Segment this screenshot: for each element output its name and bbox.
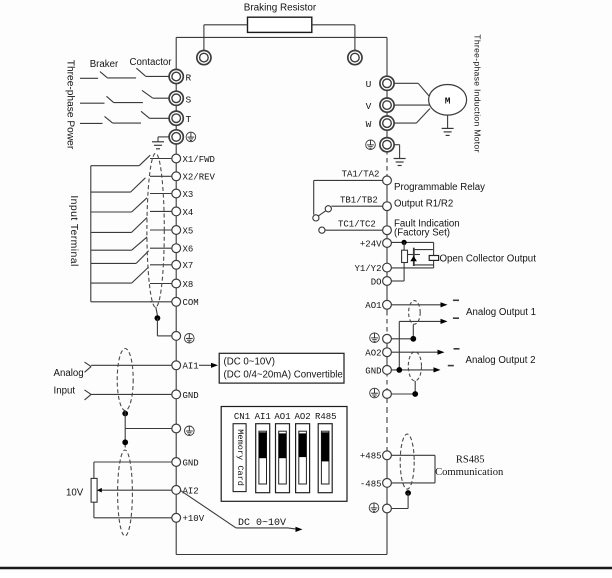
- wire braking resistor left lead: [204, 24, 248, 26]
- wire PE ao2 to shield: [391, 381, 415, 394]
- wire R phase source lead: [80, 77, 98, 79]
- DC note underline and arrow: [236, 527, 303, 532]
- svg-text:(DC 0~10V): (DC 0~10V): [224, 357, 275, 368]
- inverter enclosure right edge solid segment 5: [386, 451, 388, 555]
- switch blade X5: [132, 237, 148, 250]
- converter note text: [224, 357, 343, 381]
- wire input switch row 2: [91, 191, 131, 193]
- wire Y1/Y2: [391, 267, 433, 269]
- wire S contactor to terminal: [153, 97, 170, 99]
- wire input switch row 4: [91, 231, 132, 233]
- terminal PE ao2: [383, 390, 392, 399]
- converter note box: [219, 353, 344, 383]
- wire stub to X7: [150, 264, 172, 266]
- switch blade X1: [139, 155, 150, 166]
- terminal COM: [172, 297, 199, 308]
- open collector output connector: [429, 256, 438, 261]
- wire COM row: [91, 301, 152, 303]
- wire drain down and to PE terminal: [157, 318, 171, 336]
- terminal S: [169, 91, 191, 105]
- terminal X1/FWD: [172, 154, 215, 165]
- wire shield drain to node: [156, 307, 158, 316]
- label Input: [54, 386, 76, 397]
- terminal P (braking): [197, 51, 211, 65]
- terminal X2/REV: [172, 172, 216, 183]
- terminal PB (braking): [348, 51, 362, 65]
- svg-text:Input: Input: [54, 386, 76, 397]
- wire shield1 to shield2: [124, 411, 126, 448]
- terminal -485: [383, 479, 392, 488]
- relay contact NO: [325, 206, 331, 212]
- label Analog: [54, 368, 84, 379]
- inverter enclosure right edge dashed segment 3: [386, 372, 388, 391]
- wire left stem to terminal P: [203, 25, 205, 51]
- wire stub to X2/REV: [150, 175, 172, 177]
- terminal AI1: [172, 361, 199, 372]
- switch blade X3: [132, 198, 147, 212]
- terminal PE input: [169, 130, 183, 144]
- wire S phase source lead: [80, 102, 105, 104]
- wire R contactor to terminal: [145, 75, 169, 77]
- label +485: [360, 452, 382, 462]
- arrow AI1 to converter note: [199, 363, 218, 368]
- wire AI1 input: [91, 364, 172, 366]
- terminal PE output: [380, 138, 394, 152]
- ground symbol output PE: [394, 159, 406, 166]
- wire stub to X6: [150, 247, 172, 249]
- svg-text:M: M: [445, 95, 451, 106]
- wire stub to X1/FWD: [150, 158, 172, 160]
- svg-text:X3: X3: [183, 190, 194, 200]
- label Communication: [435, 467, 504, 478]
- svg-text:TA1/TA2: TA1/TA2: [342, 170, 380, 180]
- wire +485: [391, 454, 435, 456]
- svg-text:X4: X4: [183, 208, 194, 218]
- switch blade X6: [136, 251, 149, 264]
- wire S braker to contactor: [114, 102, 143, 104]
- wire PE 485 to shield: [391, 493, 408, 509]
- junction dot +24V: [402, 240, 407, 245]
- svg-text:R485: R485: [315, 412, 337, 422]
- inverter enclosure bottom edge: [176, 554, 387, 556]
- wire stub to X3: [150, 193, 172, 195]
- svg-text:TB1/TB2: TB1/TB2: [340, 195, 378, 205]
- wire input PE to ground: [158, 137, 169, 142]
- svg-text:X7: X7: [183, 261, 194, 271]
- svg-text:+10V: +10V: [183, 514, 205, 524]
- inverter enclosure right edge solid segment 2: [386, 177, 388, 311]
- wire stub to COM: [150, 301, 172, 303]
- transistor Q1 base drive line: [408, 254, 420, 256]
- label TB1/TB2: [340, 195, 378, 205]
- svg-text:Analog Output 2: Analog Output 2: [466, 355, 536, 366]
- PE symbol ao2: [370, 388, 380, 398]
- wire U to motor: [394, 83, 430, 96]
- wire T braker to contactor: [113, 122, 142, 124]
- wire input switch row 5: [91, 249, 132, 251]
- terminal +10V: [172, 513, 205, 524]
- svg-text:Output R1/R2: Output R1/R2: [394, 199, 453, 210]
- svg-text:Open Collector Output: Open Collector Output: [440, 254, 537, 265]
- braking resistor R: [248, 17, 312, 32]
- switch blade X2: [131, 178, 146, 192]
- page bottom border: [0, 567, 612, 570]
- label TC1/TC2: [338, 220, 376, 230]
- inverter enclosure left edge: [175, 37, 177, 554]
- motor M: [429, 85, 467, 116]
- terminal R: [169, 69, 191, 83]
- braker switch blade R: [100, 72, 107, 78]
- wire GND2 row: [94, 461, 172, 463]
- jumper switch 4: [318, 424, 332, 493]
- terminal V: [366, 98, 394, 112]
- junction dot shield2: [122, 439, 128, 445]
- wire +10V row: [94, 517, 172, 519]
- wire shields to PE terminal: [125, 428, 172, 430]
- label TA1/TA2: [342, 170, 380, 180]
- svg-text:(DC 0/4~20mA) Convertible: (DC 0/4~20mA) Convertible: [224, 370, 343, 381]
- shield ellipse input terminals: [147, 153, 164, 307]
- chevron arrow AI1: [85, 362, 92, 372]
- svg-text:U: U: [366, 79, 372, 90]
- wire TC1/TC2: [325, 229, 383, 231]
- svg-text:Analog: Analog: [54, 368, 84, 379]
- wire 485 bracket: [434, 455, 436, 483]
- terminal X7: [172, 260, 194, 271]
- svg-text:Three-phase Induction Motor: Three-phase Induction Motor: [473, 34, 483, 152]
- wire GND ao out: [391, 367, 440, 372]
- terminal GND2: [172, 458, 199, 469]
- svg-text:AI2: AI2: [183, 486, 199, 496]
- label DO: [371, 277, 382, 287]
- relay contact common: [313, 215, 319, 221]
- transistor Q1 base bar: [413, 248, 415, 266]
- svg-text:Analog Output 1: Analog Output 1: [466, 307, 536, 318]
- svg-text:Memory Card: Memory Card: [235, 429, 245, 486]
- wire PE ao1 to shield: [391, 325, 413, 339]
- ground symbol at input PE: [152, 142, 164, 149]
- svg-text:GND: GND: [183, 391, 199, 401]
- wire R braker to contactor: [107, 77, 136, 79]
- terminal +24V: [383, 239, 392, 248]
- terminal PE ao1: [383, 334, 392, 343]
- label Input Terminal: [68, 195, 80, 266]
- svg-text:Three-phase Power: Three-phase Power: [65, 60, 76, 150]
- wire pot top lead: [93, 462, 95, 478]
- label Programmable Relay: [394, 182, 485, 193]
- svg-text:+24V: +24V: [360, 239, 382, 249]
- svg-text:Communication: Communication: [435, 467, 504, 478]
- terminal X8: [172, 279, 194, 290]
- svg-text:(Factory Set): (Factory Set): [394, 228, 450, 239]
- jumper header labels: [234, 412, 337, 422]
- minus marks AO1: [453, 300, 459, 318]
- terminal TC1/TC2: [383, 226, 392, 235]
- wire AO1 out: [391, 302, 447, 307]
- braker switch blade T: [105, 116, 113, 123]
- PE symbol 485: [369, 503, 379, 513]
- terminal T: [169, 111, 191, 125]
- svg-text:Input Terminal: Input Terminal: [68, 195, 80, 266]
- wire T contactor to terminal: [150, 117, 170, 119]
- jumper switch 1: [256, 424, 270, 493]
- svg-text:10V: 10V: [66, 488, 84, 499]
- wire AI2 note diagonal: [181, 491, 236, 528]
- terminal AO1: [383, 300, 392, 309]
- svg-text:X8: X8: [183, 280, 194, 290]
- label +24V: [360, 239, 382, 249]
- junction dot shield drain: [155, 315, 161, 321]
- label -485: [360, 479, 382, 489]
- contactor switch blade S: [142, 90, 153, 98]
- minus marks AO2: [448, 349, 460, 366]
- svg-text:CN1: CN1: [234, 412, 250, 422]
- inverter enclosure right edge solid segment 3: [386, 336, 388, 372]
- terminal PE 485: [383, 504, 392, 513]
- PE symbol ao1: [370, 333, 380, 343]
- wire stub to X8: [150, 283, 172, 285]
- wire open collector vertical: [433, 242, 435, 268]
- svg-text:V: V: [366, 101, 372, 112]
- shield ellipse pot: [118, 450, 133, 536]
- terminal X5: [172, 226, 194, 237]
- junction dot GND ao: [396, 367, 402, 373]
- terminal +485: [383, 451, 392, 460]
- ground symbol motor: [442, 128, 454, 135]
- svg-text:Programmable Relay: Programmable Relay: [394, 182, 485, 193]
- svg-text:Contactor: Contactor: [130, 57, 173, 68]
- relay blade: [318, 211, 325, 216]
- svg-text:AI1: AI1: [183, 362, 199, 372]
- inverter enclosure right edge solid segment 1: [386, 37, 388, 150]
- wire motor to ground: [447, 115, 449, 128]
- wire AO2 out: [391, 350, 444, 355]
- svg-text:Y1/Y2: Y1/Y2: [354, 264, 381, 274]
- label GND ao: [365, 366, 381, 376]
- svg-text:W: W: [366, 119, 372, 130]
- braker switch blade S: [107, 96, 114, 102]
- wire stub to X4: [150, 210, 172, 212]
- terminal Y1/Y2: [383, 263, 392, 272]
- wire T phase source lead: [80, 122, 103, 124]
- PE symbol control left: [185, 333, 195, 343]
- wire output PE to ground: [394, 145, 400, 159]
- label Three-phase Power: [65, 60, 76, 150]
- svg-text:S: S: [186, 94, 192, 105]
- PE symbol analog: [185, 426, 195, 436]
- wire -485: [391, 482, 435, 484]
- terminal DO: [383, 277, 392, 286]
- label AO2: [365, 349, 381, 359]
- wire TA1/TA2: [314, 180, 383, 214]
- label RS485: [456, 455, 485, 466]
- label Open Collector Output: [440, 254, 537, 265]
- input switch bracket wire: [90, 166, 92, 302]
- wire +24V rail: [391, 241, 433, 243]
- label Contactor: [130, 57, 173, 68]
- terminal TB1/TB2: [383, 202, 392, 211]
- wire V to motor: [394, 104, 430, 106]
- wire W to motor: [394, 109, 430, 124]
- label Factory Set: [394, 228, 450, 239]
- terminal W: [366, 116, 394, 130]
- transistor Q1 arrow: [410, 256, 417, 261]
- shield ellipse AO2: [408, 352, 421, 381]
- potentiometer 10V body: [91, 478, 97, 502]
- inverter enclosure right edge dashed segment 1: [386, 150, 388, 177]
- contactor switch blade T: [141, 111, 150, 118]
- terminal GND ao: [383, 366, 392, 375]
- svg-text:Braking Resistor: Braking Resistor: [244, 3, 317, 14]
- terminal TA1/TA2: [383, 176, 392, 185]
- wire braking resistor right lead: [312, 24, 355, 26]
- svg-text:AO1: AO1: [365, 301, 381, 311]
- junction dot PE ao1: [410, 336, 416, 342]
- svg-text:GND: GND: [365, 366, 381, 376]
- wire input switch row 6: [91, 262, 136, 264]
- svg-text:TC1/TC2: TC1/TC2: [338, 220, 376, 230]
- switch blade X4: [132, 218, 147, 233]
- svg-text:Braker: Braker: [90, 59, 119, 70]
- terminal U: [366, 76, 394, 90]
- terminal X6: [172, 244, 194, 255]
- terminal PE (control): [172, 332, 181, 341]
- junction dot RS485 shield: [405, 490, 411, 496]
- terminal PE analog: [172, 424, 181, 433]
- relay contact NC: [319, 227, 325, 233]
- inverter enclosure top edge: [176, 36, 387, 38]
- chevron arrow GND input: [85, 390, 92, 400]
- wire DO: [391, 280, 404, 282]
- wire input switch row 1: [91, 165, 139, 167]
- svg-text:DC 0~10V: DC 0~10V: [238, 518, 286, 529]
- svg-text:COM: COM: [183, 298, 199, 308]
- label AO1: [365, 301, 381, 311]
- svg-text:X2/REV: X2/REV: [183, 173, 216, 183]
- braking resistor label: [244, 3, 317, 14]
- svg-text:+485: +485: [360, 452, 382, 462]
- wire stub to X5: [150, 229, 172, 231]
- terminal GND analog: [172, 390, 199, 401]
- shield ellipse analog input: [117, 349, 133, 411]
- wire input switch row 3: [91, 211, 132, 213]
- label 10V: [66, 488, 84, 499]
- memory card slot CN1: [233, 424, 246, 492]
- terminal AI2: [172, 486, 199, 497]
- wire AO1 return: [399, 319, 447, 370]
- jumper switch 2: [276, 424, 290, 493]
- label Output R1/R2: [394, 199, 453, 210]
- terminal X4: [172, 207, 194, 218]
- label Three-phase Induction Motor: [473, 34, 483, 152]
- wire GND input: [91, 393, 172, 395]
- resistor pull-up: [402, 242, 408, 281]
- junction dot shield1: [122, 411, 128, 417]
- label Fault Indication: [394, 219, 460, 230]
- svg-text:GND: GND: [183, 458, 199, 468]
- svg-text:AO2: AO2: [294, 412, 310, 422]
- pot wiper arrow: [97, 488, 172, 493]
- transistor Q1 emitter line: [414, 264, 434, 266]
- svg-text:RS485: RS485: [456, 455, 485, 466]
- svg-text:-485: -485: [360, 479, 382, 489]
- svg-text:X5: X5: [183, 226, 194, 236]
- wire right stem to terminal PB: [354, 25, 356, 51]
- svg-text:AO1: AO1: [274, 412, 290, 422]
- wire input switch row 7: [91, 282, 132, 284]
- svg-text:X6: X6: [183, 245, 194, 255]
- label Braker: [90, 59, 119, 70]
- svg-text:AI1: AI1: [255, 412, 271, 422]
- terminal X3: [172, 189, 194, 200]
- svg-text:AO2: AO2: [365, 349, 381, 359]
- shield ellipse RS485: [400, 434, 414, 489]
- transistor Q1 collector line: [413, 249, 433, 251]
- switch blade X7: [132, 267, 149, 283]
- wire TB1/TB2: [331, 205, 382, 207]
- svg-text:DO: DO: [371, 277, 382, 287]
- terminal AO2: [383, 348, 392, 357]
- PE symbol at input PE terminal: [186, 132, 196, 142]
- PE symbol output: [366, 140, 376, 150]
- DC 0~10V note text: [238, 518, 286, 529]
- junction dot PE ao2: [412, 391, 418, 397]
- inverter enclosure right edge dashed segment 4: [386, 397, 388, 451]
- jumper box: [221, 407, 347, 502]
- inverter enclosure right edge dashed segment 2: [386, 311, 388, 336]
- label Analog Output 1: [466, 307, 536, 318]
- jumper switch 3: [296, 424, 310, 493]
- label Y1/Y2: [354, 264, 381, 274]
- wire pot bottom lead: [93, 502, 95, 518]
- svg-text:X1/FWD: X1/FWD: [183, 155, 215, 165]
- svg-text:R: R: [186, 73, 192, 84]
- label Analog Output 2: [466, 355, 536, 366]
- contactor switch blade R: [136, 68, 145, 76]
- svg-text:T: T: [186, 114, 192, 125]
- shield ellipse AO1: [409, 301, 421, 325]
